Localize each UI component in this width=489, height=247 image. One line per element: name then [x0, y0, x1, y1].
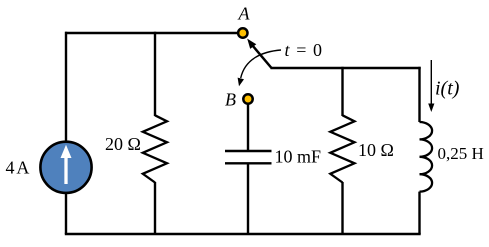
wire: 20-ohm branch top stub — [154, 32, 156, 116]
value label 10 ohm — [358, 140, 394, 160]
node B label — [225, 90, 236, 110]
svg-text:i(t): i(t) — [435, 78, 460, 100]
value label 4 A — [6, 158, 30, 178]
node A terminal dot — [238, 28, 247, 37]
wire: top horizontal from left corner to node A — [65, 32, 237, 34]
label t = 0 — [285, 40, 324, 60]
wire: 20-ohm branch bottom stub — [154, 182, 156, 234]
svg-text:t = 0: t = 0 — [285, 40, 324, 60]
svg-text:0,25 H: 0,25 H — [438, 144, 484, 163]
svg-text:10 Ω: 10 Ω — [358, 140, 394, 160]
node A label — [238, 4, 251, 24]
resistor R 20 ohm zigzag — [143, 115, 167, 182]
inductor L 0.25 H coil — [420, 122, 433, 192]
wire: switch horizontal to right side — [271, 67, 421, 69]
svg-text:10 mF: 10 mF — [275, 147, 322, 167]
wire: left vertical (top wire to source top) — [65, 32, 67, 141]
value label 20 ohm — [105, 134, 141, 154]
switch throw arc annotation (curved arrow toward B) — [238, 50, 281, 86]
wire: bottom horizontal — [65, 233, 421, 236]
current source I1 4 A (circle with up arrow) — [40, 142, 91, 193]
wire: node B down to capacitor top plate — [247, 104, 249, 151]
current annotation arrow i(t) pointing down — [428, 60, 434, 112]
wire: 10-ohm branch top stub — [341, 67, 343, 116]
svg-text:B: B — [225, 90, 236, 110]
wire: inductor bottom to bottom wire — [418, 192, 420, 234]
wire: right vertical (switch wire corner down to inductor) — [418, 67, 420, 122]
switch blade with arrowhead toward A — [247, 39, 271, 68]
capacitor C 10 mF plates — [225, 151, 272, 163]
node B terminal dot — [243, 94, 252, 103]
svg-text:4 A: 4 A — [6, 158, 30, 178]
wire: left vertical (source bottom to bottom wire) — [65, 193, 67, 234]
value label 0,25 H — [438, 144, 484, 163]
svg-text:20 Ω: 20 Ω — [105, 134, 141, 154]
label i(t) — [435, 78, 460, 100]
wire: capacitor bottom plate to bottom wire — [247, 163, 249, 234]
resistor R 10 ohm zigzag — [330, 115, 354, 182]
wire: 10-ohm branch bottom stub — [341, 182, 343, 234]
value label 10 mF — [275, 147, 322, 167]
svg-text:A: A — [238, 4, 251, 24]
